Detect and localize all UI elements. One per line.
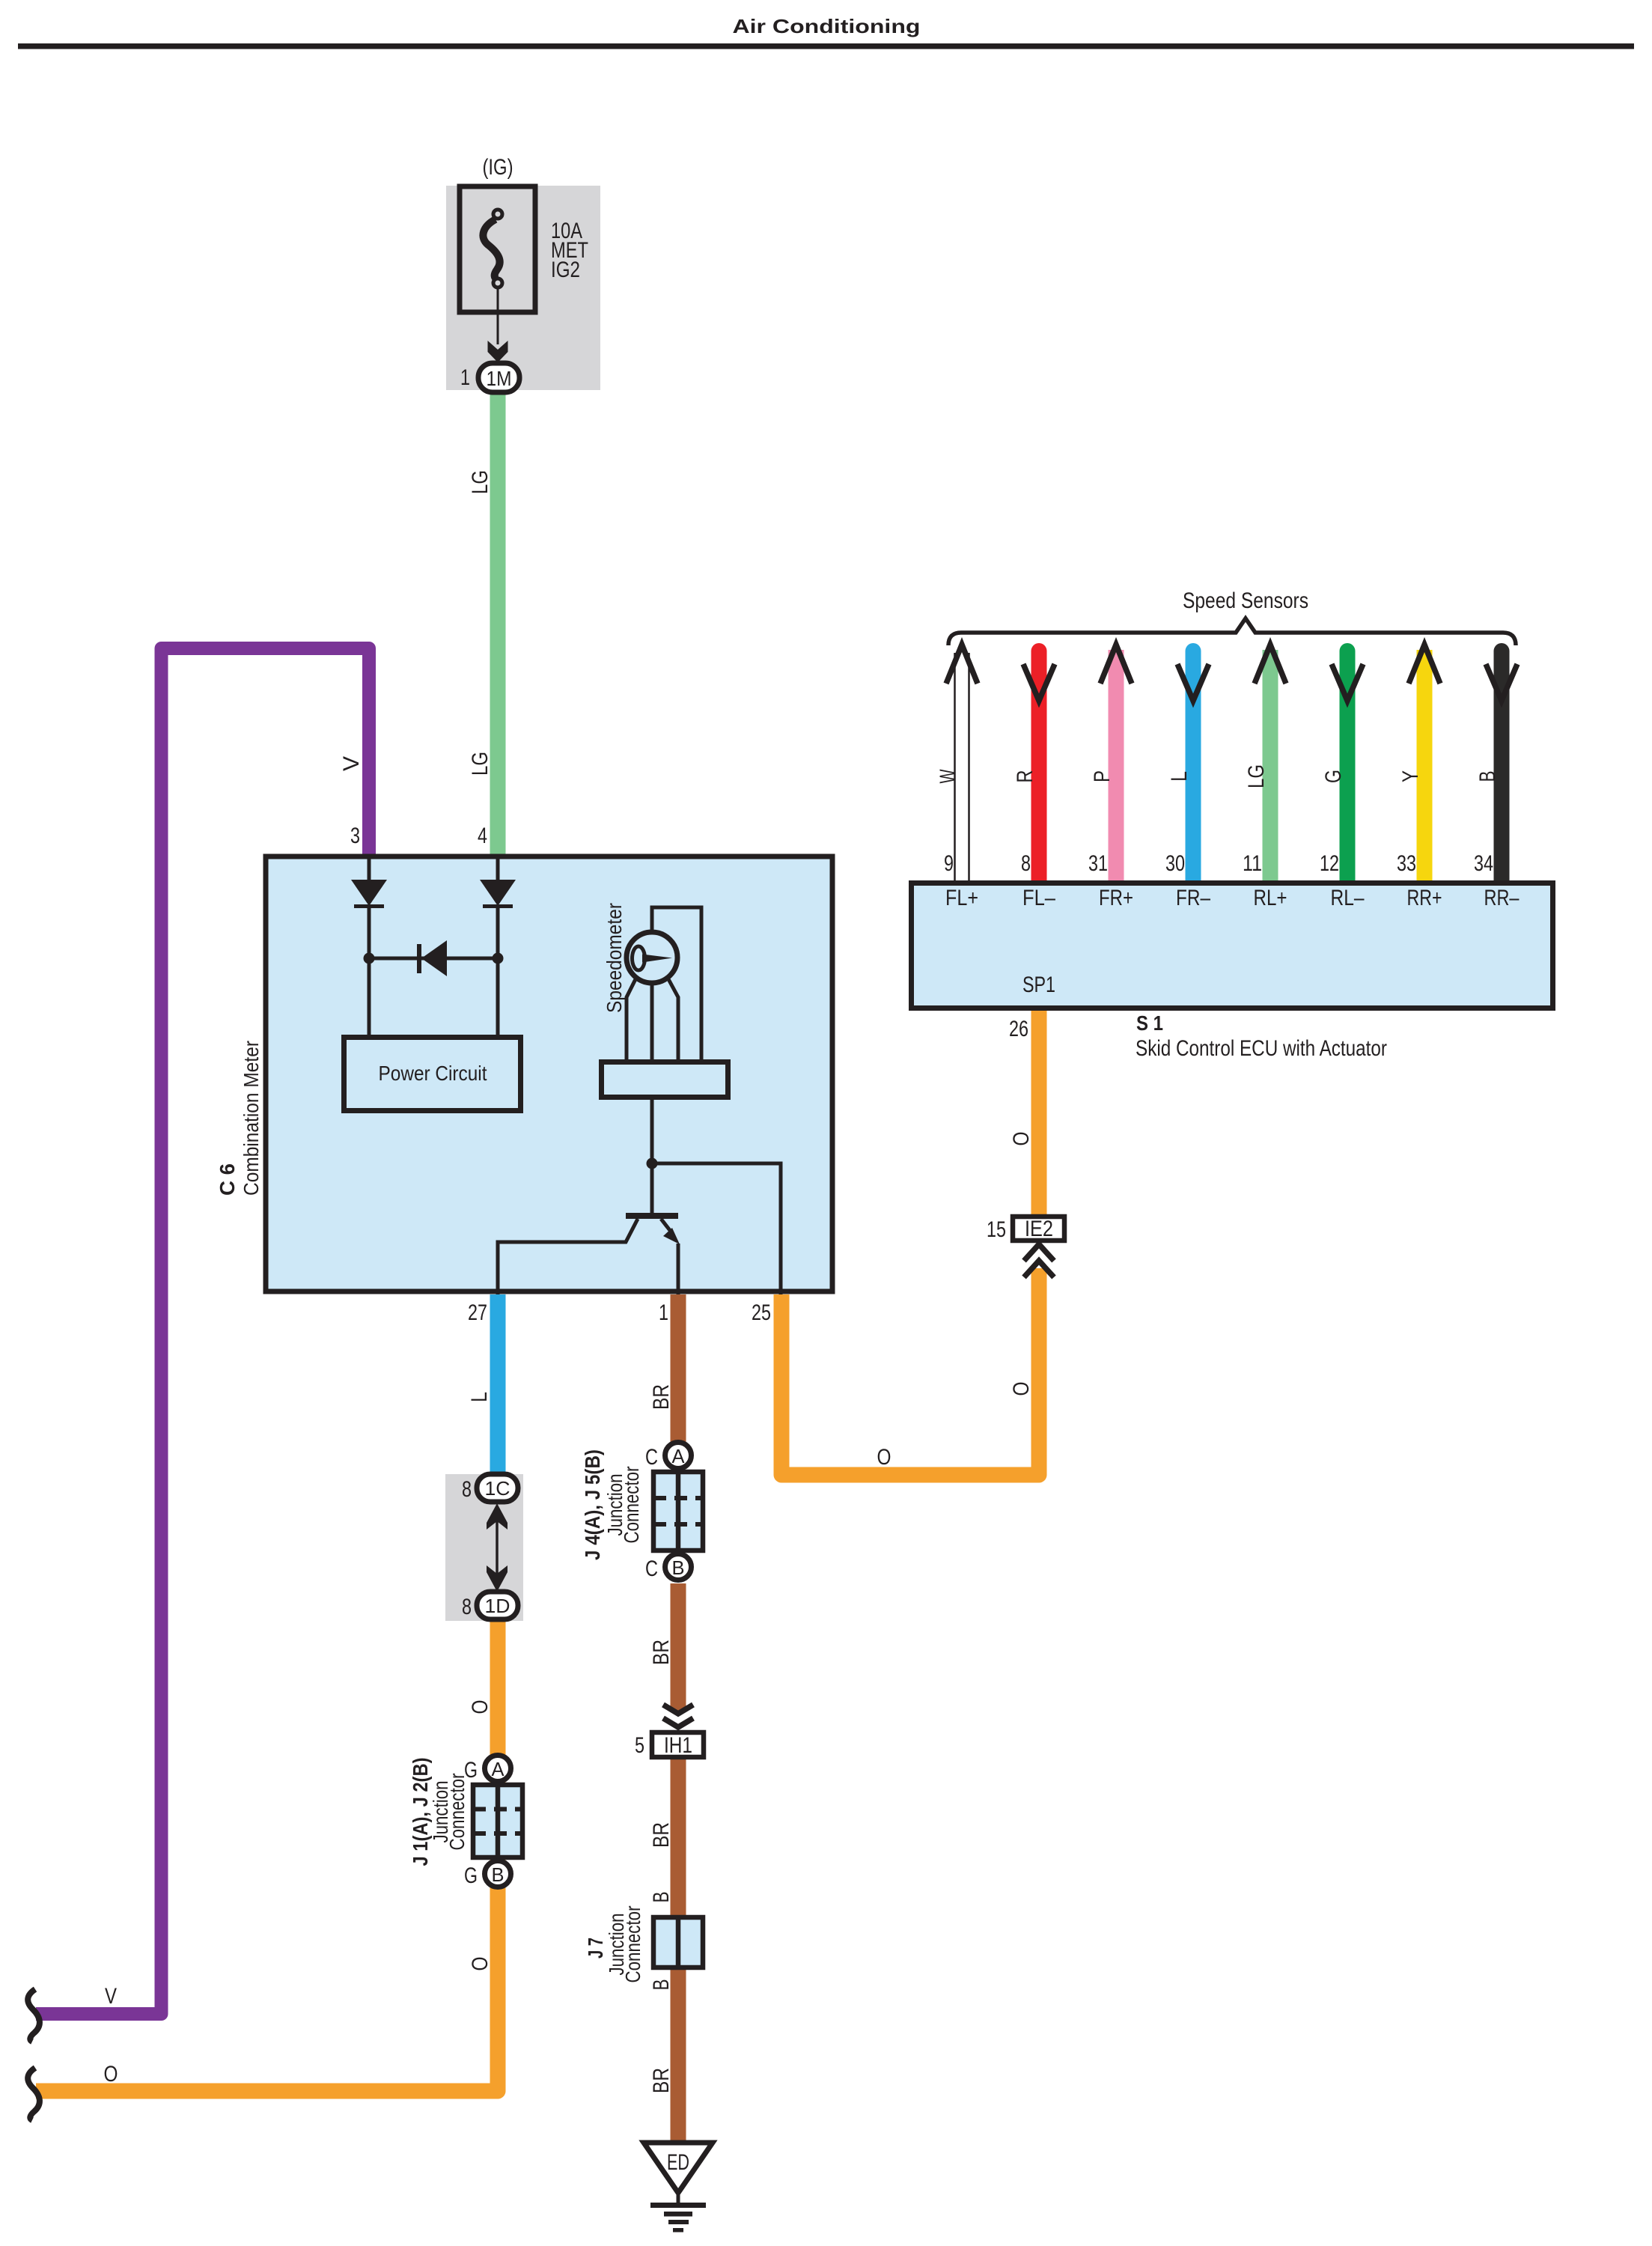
svg-text:G: G: [1321, 770, 1346, 783]
svg-text:1D: 1D: [485, 1595, 510, 1617]
svg-text:O: O: [877, 1445, 891, 1470]
connector 1C: [477, 1474, 518, 1502]
svg-text:27: 27: [468, 1300, 487, 1325]
svg-text:12: 12: [1320, 851, 1339, 876]
wire Y: [1409, 645, 1440, 880]
svg-text:1M: 1M: [487, 367, 512, 390]
node A: [485, 1756, 511, 1782]
svg-text:O: O: [468, 1957, 493, 1971]
svg-text:34: 34: [1474, 851, 1493, 876]
svg-text:IH1: IH1: [664, 1733, 692, 1758]
svg-text:15: 15: [987, 1217, 1006, 1242]
svg-text:Speedometer: Speedometer: [603, 903, 626, 1013]
wire L pin27: [490, 1294, 506, 1479]
svg-text:P: P: [1090, 770, 1115, 782]
svg-text:A: A: [672, 1445, 686, 1467]
wire LG fuse to meter: [490, 389, 506, 855]
connector 1D: [477, 1592, 518, 1619]
junction connector J1/J2 grid: [473, 1785, 522, 1857]
node dot right: [493, 953, 504, 964]
mating arrows between 1C and 1D: [496, 1512, 499, 1583]
transistor emitter lead with arrow: [661, 1219, 671, 1232]
connector IH1: [652, 1732, 704, 1757]
wire L: [1177, 651, 1209, 881]
svg-text:O: O: [1009, 1132, 1034, 1146]
ECU box S1: [912, 883, 1553, 1008]
svg-text:30: 30: [1165, 851, 1185, 876]
speedometer left lead: [627, 978, 636, 1059]
speedometer center lead: [650, 982, 654, 1059]
wire O pin25 to IE2 run: [781, 1268, 1039, 1475]
svg-text:4: 4: [478, 824, 487, 848]
svg-text:J 7: J 7: [584, 1938, 607, 1959]
svg-text:Power Circuit: Power Circuit: [379, 1062, 487, 1085]
ground bars: [650, 2203, 706, 2208]
svg-text:8: 8: [462, 1477, 472, 1502]
connector 1M: [478, 363, 519, 392]
diode D1 leads: [368, 856, 371, 881]
svg-text:R: R: [1013, 770, 1037, 783]
svg-text:O: O: [1009, 1382, 1034, 1396]
svg-text:LG: LG: [468, 752, 493, 776]
transistor base bar: [626, 1213, 678, 1219]
node dot: [647, 1158, 658, 1169]
svg-text:G: G: [464, 1863, 478, 1888]
svg-text:O: O: [468, 1700, 493, 1714]
svg-text:8: 8: [1021, 851, 1031, 876]
power circuit box: [344, 1038, 521, 1111]
double chevron up below IE2: [1024, 1244, 1054, 1261]
svg-text:SP1: SP1: [1022, 973, 1055, 997]
ground triangle: [644, 2143, 713, 2193]
svg-text:L: L: [1167, 771, 1192, 782]
break squiggle V wire: [28, 1989, 40, 2042]
wire P: [1100, 645, 1132, 880]
svg-text:1C: 1C: [485, 1477, 510, 1500]
arrow into 1M: [488, 341, 508, 362]
fuse MET IG2 box: [460, 186, 535, 312]
break squiggle O wire: [28, 2068, 40, 2120]
svg-text:IG2: IG2: [551, 258, 580, 282]
wire W: [946, 645, 978, 880]
svg-text:L: L: [467, 1392, 492, 1402]
fuse element: [483, 219, 499, 279]
svg-text:B: B: [672, 1556, 685, 1579]
svg-text:W: W: [936, 769, 960, 783]
svg-text:Air Conditioning: Air Conditioning: [733, 15, 921, 37]
svg-text:FL+: FL+: [945, 886, 978, 910]
transistor Q collector lead: [650, 1163, 654, 1213]
svg-text:A: A: [492, 1758, 505, 1780]
svg-text:1: 1: [659, 1300, 668, 1325]
wire B: [1486, 651, 1517, 881]
svg-text:FL–: FL–: [1022, 886, 1055, 910]
node B: [485, 1861, 511, 1887]
svg-text:Combination Meter: Combination Meter: [240, 1041, 263, 1196]
svg-text:V: V: [339, 756, 364, 771]
svg-text:RR+: RR+: [1407, 886, 1442, 910]
cross wire between diodes: [369, 957, 498, 961]
svg-text:RL–: RL–: [1331, 886, 1365, 910]
speedometer right lead: [668, 978, 678, 1059]
svg-text:1: 1: [460, 365, 470, 390]
svg-text:BR: BR: [649, 2068, 674, 2093]
svg-text:BR: BR: [649, 1822, 674, 1848]
fuse block shading: [446, 186, 600, 390]
svg-text:ED: ED: [667, 2150, 689, 2175]
svg-text:LG: LG: [1244, 764, 1269, 788]
svg-text:RL+: RL+: [1254, 886, 1287, 910]
svg-text:11: 11: [1243, 851, 1262, 876]
gauge needle: [633, 946, 645, 970]
svg-text:31: 31: [1088, 851, 1108, 876]
wire R: [1023, 651, 1055, 881]
svg-text:Y: Y: [1398, 770, 1423, 782]
junction connector J7: [653, 1917, 703, 1967]
wire G: [1332, 651, 1363, 881]
node C/A: [665, 1443, 692, 1469]
svg-text:(IG): (IG): [483, 155, 513, 180]
svg-text:B: B: [492, 1863, 505, 1886]
svg-text:RR–: RR–: [1484, 886, 1520, 910]
diode D3 (left pointing): [417, 944, 421, 973]
wire O bottom run: [36, 1610, 498, 2091]
svg-text:S 1: S 1: [1136, 1011, 1163, 1035]
svg-text:Skid Control ECU with Actuator: Skid Control ECU with Actuator: [1136, 1036, 1387, 1061]
svg-text:B: B: [1475, 771, 1500, 782]
svg-text:C: C: [645, 1556, 658, 1581]
svg-text:LG: LG: [468, 470, 493, 494]
svg-text:FR+: FR+: [1099, 886, 1133, 910]
svg-text:5: 5: [635, 1733, 644, 1758]
svg-text:3: 3: [350, 824, 360, 848]
wire LG: [1255, 645, 1286, 880]
svg-text:8: 8: [462, 1595, 472, 1619]
diode D1: [351, 880, 387, 906]
junction connector J4/J5 grid: [653, 1472, 703, 1550]
svg-text:Connector: Connector: [445, 1774, 469, 1851]
svg-text:B: B: [649, 1892, 674, 1903]
title rule: [18, 43, 1634, 49]
speedometer gauge circle: [627, 932, 677, 983]
speedometer top bracket: [652, 907, 701, 1059]
wire O SP1 to IE2: [1031, 1011, 1047, 1216]
node dot left: [364, 953, 375, 964]
svg-text:C 6: C 6: [216, 1163, 239, 1196]
ground stub: [677, 2193, 680, 2204]
wire V purple main run: [36, 648, 369, 2014]
svg-text:BR: BR: [649, 1384, 674, 1410]
speedometer driver box: [602, 1062, 728, 1098]
wire fuse to 1M: [497, 287, 499, 344]
double chevron down above IH1: [663, 1705, 693, 1714]
svg-text:O: O: [104, 2062, 118, 2087]
wire BR IH1 to J7: [671, 1759, 686, 1918]
transistor left (base) lead: [498, 1219, 638, 1294]
svg-text:V: V: [105, 1984, 117, 2009]
wire BR J7 to ground: [671, 1967, 686, 2143]
svg-text:Speed Sensors: Speed Sensors: [1183, 588, 1308, 613]
diode D2: [480, 880, 516, 906]
svg-text:IE2: IE2: [1025, 1217, 1053, 1241]
connector IE2: [1013, 1217, 1064, 1241]
svg-text:25: 25: [752, 1300, 771, 1325]
wire BR pin1: [671, 1294, 686, 1443]
connector shading: [445, 1474, 523, 1621]
svg-text:Connector: Connector: [621, 1906, 644, 1983]
svg-text:J 4(A), J 5(B): J 4(A), J 5(B): [581, 1449, 604, 1560]
svg-text:B: B: [649, 1979, 674, 1991]
wire node to pin25: [652, 1163, 781, 1294]
svg-text:33: 33: [1397, 851, 1416, 876]
node C/B: [665, 1554, 692, 1580]
lead below driver box: [650, 1098, 654, 1166]
svg-text:BR: BR: [649, 1640, 674, 1665]
svg-text:C: C: [645, 1445, 658, 1470]
combination meter box: [266, 856, 832, 1291]
svg-text:FR–: FR–: [1176, 886, 1210, 910]
curly brace for speed sensors: [948, 618, 1516, 645]
svg-text:26: 26: [1009, 1017, 1028, 1041]
svg-text:9: 9: [944, 851, 954, 876]
wire BR between J4 and IH1: [671, 1583, 686, 1711]
diode D2 leads: [496, 856, 500, 881]
svg-text:Connector: Connector: [620, 1467, 643, 1544]
